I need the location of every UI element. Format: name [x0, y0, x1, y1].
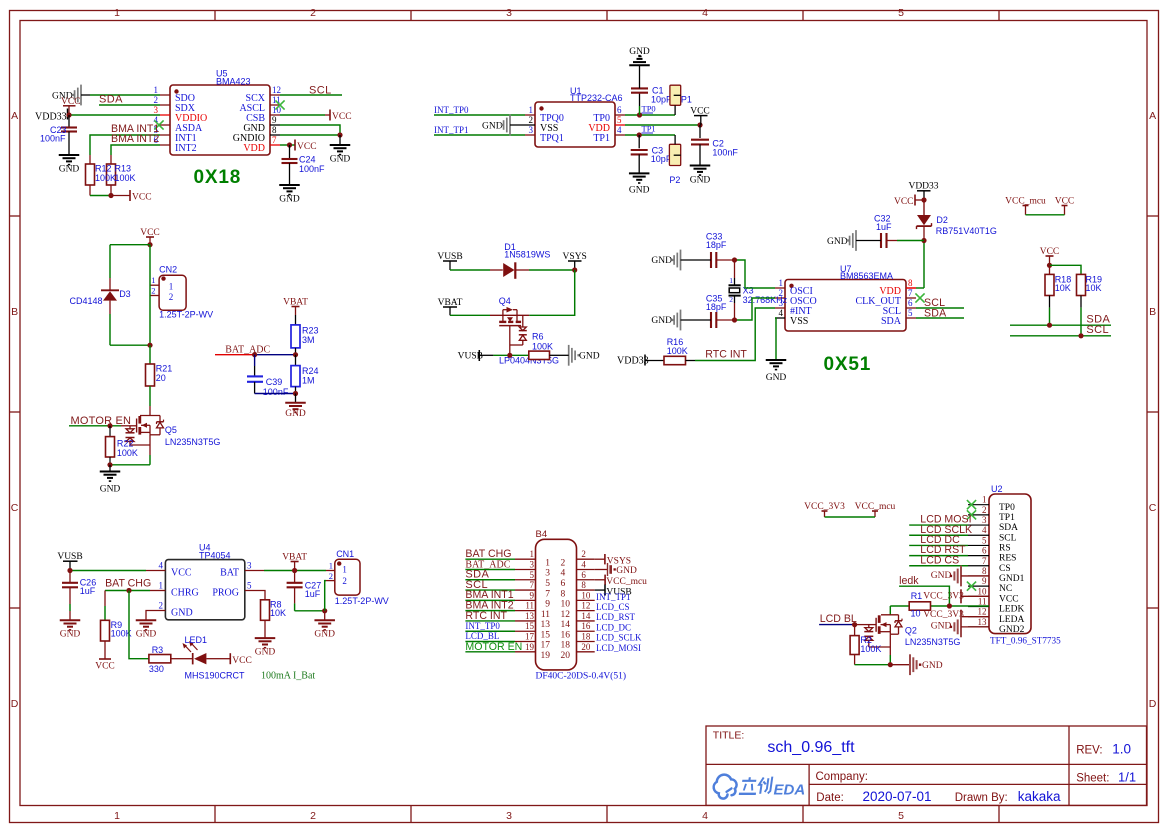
U1 left pins 1-3	[525, 105, 564, 144]
no-connect X on U5 pin11	[275, 100, 284, 109]
port VUSB top	[437, 252, 462, 270]
wire VCC_3V3 to VCC_mcu tie	[825, 516, 876, 518]
resistor R16 100K	[645, 337, 695, 365]
svg-text:EDA: EDA	[774, 782, 806, 799]
svg-text:INT2: INT2	[175, 143, 197, 154]
svg-text:1uF: 1uF	[876, 222, 892, 232]
svg-text:4: 4	[561, 569, 566, 579]
svg-text:VCC: VCC	[690, 106, 710, 116]
svg-text:9: 9	[545, 600, 550, 610]
wire BAT_ADC	[215, 354, 296, 356]
no-connect X on U2 pin2	[967, 510, 976, 519]
svg-text:4: 4	[617, 125, 622, 135]
svg-text:12: 12	[272, 85, 281, 95]
svg-text:D3: D3	[119, 289, 131, 299]
svg-text:INT_TP1: INT_TP1	[596, 592, 631, 602]
svg-text:TP0: TP0	[999, 503, 1015, 513]
svg-text:10pF: 10pF	[651, 154, 672, 164]
svg-text:VDD33: VDD33	[617, 356, 649, 367]
transistor Q4 LP0404N3T5G	[490, 296, 559, 365]
svg-text:10: 10	[561, 600, 571, 610]
svg-text:4: 4	[779, 308, 784, 318]
svg-text:GND: GND	[60, 630, 81, 640]
junction at VDD33/C23/VCC	[66, 112, 71, 117]
svg-text:TITLE:: TITLE:	[713, 730, 745, 742]
diode D1 1N5819WS	[450, 242, 550, 279]
wire VSYS down to Q4 drain	[529, 270, 575, 315]
svg-text:6: 6	[561, 579, 566, 589]
junction VUSB C26	[67, 568, 72, 573]
junction crystal top	[732, 257, 737, 262]
svg-text:GND: GND	[690, 175, 711, 185]
diode D2 RB751V40T1G	[917, 200, 997, 241]
svg-text:RB751V40T1G: RB751V40T1G	[936, 226, 997, 236]
svg-text:R23: R23	[302, 326, 319, 336]
svg-text:R22: R22	[117, 438, 134, 448]
svg-text:100K: 100K	[532, 341, 553, 351]
svg-text:CN1: CN1	[336, 549, 354, 559]
svg-text:13: 13	[525, 611, 535, 621]
wire D2 cathode down to U7 pin8	[906, 241, 924, 289]
power flag VCC at U5 pin7	[295, 140, 317, 153]
port VDD33 at R16	[617, 355, 649, 367]
op-amp U5 BMA423 body	[170, 69, 270, 156]
transistor Q5 LN235N3T5G	[137, 406, 221, 455]
svg-text:INT_TP0: INT_TP0	[465, 621, 500, 631]
svg-text:VCC: VCC	[95, 662, 115, 672]
wire VCC down through CN2 to R21	[149, 245, 151, 346]
svg-text:Sheet:: Sheet:	[1076, 773, 1109, 785]
svg-text:R12: R12	[95, 164, 112, 174]
port VBAT middle	[438, 298, 463, 315]
svg-text:5: 5	[247, 581, 252, 591]
wire U7 pin6 SCL	[916, 307, 964, 309]
ground flag left of C32	[827, 230, 881, 251]
svg-text:1.25T-2P-WV: 1.25T-2P-WV	[335, 596, 389, 606]
svg-text:GND: GND	[827, 237, 848, 247]
net label LCD RST at U2 pin6	[920, 544, 966, 556]
wire B4 pin7	[465, 589, 515, 591]
svg-text:B: B	[1149, 306, 1156, 318]
port VDD33 top right	[908, 182, 938, 200]
svg-text:2: 2	[581, 549, 586, 559]
svg-text:0X18: 0X18	[194, 167, 242, 188]
resistor R3 330	[149, 645, 181, 674]
net label LCD_SCLK at B4 pin18	[596, 633, 642, 643]
transistor Q2 LN235N3T5G	[876, 606, 960, 655]
svg-text:VUSB: VUSB	[57, 552, 82, 562]
wire MOTOR_EN to Q5 gate	[69, 425, 137, 427]
net label RTC INT at B4 pin13	[465, 610, 507, 622]
svg-text:MHS190CRCT: MHS190CRCT	[185, 670, 246, 680]
svg-text:5: 5	[545, 579, 550, 589]
svg-text:GND: GND	[279, 195, 300, 205]
svg-text:19: 19	[541, 651, 551, 661]
svg-text:Drawn By:: Drawn By:	[955, 792, 1008, 804]
svg-text:12: 12	[978, 607, 987, 617]
svg-text:19: 19	[525, 642, 535, 652]
svg-text:NC: NC	[999, 584, 1012, 594]
junction Q2 source ground	[888, 662, 893, 667]
svg-text:10: 10	[978, 586, 988, 596]
power flag VCC_3V3 at U2 pin10	[923, 589, 989, 603]
current note 100mA I_Bat	[261, 670, 315, 681]
no-connect X on U5 pin4	[154, 120, 163, 129]
junction ground node CN1	[322, 608, 327, 613]
ground flag at U2 pin13 GND2	[931, 616, 989, 637]
wire BMA_INT2 to U5 pin6 and down to R13	[111, 145, 160, 155]
svg-text:TPQ1: TPQ1	[540, 133, 564, 144]
resistor R19 10K	[1077, 274, 1103, 336]
svg-text:9: 9	[530, 590, 535, 600]
svg-text:1: 1	[342, 565, 347, 575]
power flag VCC left of D2	[894, 195, 924, 207]
wire B4 pin19	[465, 651, 515, 653]
svg-text:1: 1	[779, 278, 784, 288]
svg-text:REV:: REV:	[1076, 745, 1102, 757]
net label LCD BL	[820, 613, 857, 625]
svg-text:kakaka: kakaka	[1018, 789, 1061, 804]
wire B4 pin5	[465, 579, 515, 581]
svg-text:12: 12	[581, 601, 590, 611]
svg-text:18pF: 18pF	[706, 240, 727, 250]
net label BMA INT1	[111, 123, 159, 135]
ground flag at U2 pin8 GND1	[931, 566, 989, 587]
ground flag at B4 pin4	[595, 563, 637, 576]
svg-text:9: 9	[272, 115, 277, 125]
wire U5 pin10 to VCC	[280, 114, 330, 116]
svg-text:SCL: SCL	[1086, 324, 1109, 336]
svg-text:2: 2	[310, 7, 316, 19]
svg-text:VCC: VCC	[171, 568, 192, 579]
net label LCD SCLK at U2 pin4	[920, 524, 972, 536]
svg-text:Q2: Q2	[905, 626, 917, 636]
junction VBAT at C27	[292, 568, 297, 573]
net label SDA at U7 pin5	[924, 308, 947, 320]
wire U5 pin7 VDD to VCC	[280, 144, 295, 146]
svg-text:1.0: 1.0	[1112, 742, 1131, 757]
U7 address label 0X51	[824, 354, 872, 375]
U5 address label 0X18	[194, 167, 242, 188]
junction VCC node	[147, 242, 152, 247]
U7 left pins 1-4	[775, 278, 817, 327]
touch IC U1 TTP232-CA6 body	[535, 86, 623, 147]
svg-text:BAT: BAT	[220, 568, 239, 579]
svg-text:TFT_0.96_ST7735: TFT_0.96_ST7735	[990, 635, 1061, 645]
svg-text:LEDK: LEDK	[999, 605, 1024, 615]
svg-text:16: 16	[581, 621, 591, 631]
net label INT_TP1 at B4 pin10	[596, 592, 631, 602]
port VCC above C2	[690, 106, 710, 125]
U2 pins 1-13	[968, 495, 1025, 635]
net label TP0	[642, 104, 656, 114]
svg-text:P1: P1	[681, 95, 692, 105]
wire SCL rail	[1010, 335, 1111, 337]
svg-text:GND: GND	[100, 485, 121, 495]
power flag VCC above CN2	[140, 228, 160, 245]
svg-text:VCC: VCC	[999, 594, 1019, 604]
svg-text:B4: B4	[536, 529, 548, 540]
svg-text:1: 1	[114, 7, 120, 19]
svg-text:GND: GND	[922, 661, 943, 671]
svg-text:3: 3	[982, 515, 987, 525]
capacitor C27 1uF	[287, 571, 322, 611]
svg-text:7: 7	[545, 589, 550, 599]
connector CN1 1.25T-2P-WV	[326, 549, 389, 606]
svg-text:GND: GND	[629, 47, 650, 57]
port VUSB at U4	[57, 552, 82, 571]
svg-text:SDA: SDA	[99, 94, 123, 106]
ground flag at U1 pin2 VSS	[482, 115, 525, 136]
svg-text:BAT CHG: BAT CHG	[105, 578, 151, 590]
svg-text:VCC: VCC	[297, 142, 317, 152]
port VUSB at B4 pin8	[595, 585, 632, 598]
ground at U4 pin2 (red)	[136, 620, 157, 639]
svg-text:RES: RES	[999, 554, 1016, 564]
power flag VSYS at B4 pin2	[595, 554, 631, 567]
net label BAT_ADC at B4 pin3	[465, 559, 510, 570]
wire B4 pin11	[465, 610, 515, 612]
svg-text:C24: C24	[299, 155, 316, 165]
svg-text:TTP232-CA6: TTP232-CA6	[570, 93, 623, 103]
power flag VCC_mcu top right	[1005, 197, 1046, 215]
svg-text:GND: GND	[136, 630, 157, 640]
wire R16 to U7 pin3 #INT	[695, 308, 775, 361]
svg-text:2: 2	[159, 601, 164, 611]
resistor R1 10	[890, 591, 930, 618]
wire INT_TP0 to U1 pin1	[434, 114, 525, 116]
wire Q2 source to ground rail	[855, 655, 891, 665]
wire B4 pin1	[465, 558, 515, 560]
svg-text:VDD33: VDD33	[35, 111, 67, 122]
net label SDA	[99, 94, 123, 106]
svg-text:GND: GND	[651, 256, 672, 266]
svg-text:BM8563EMA: BM8563EMA	[840, 271, 893, 281]
svg-text:U2: U2	[991, 484, 1003, 494]
resistor R22 100K	[106, 426, 138, 465]
power flag VCC at R12/R13	[130, 190, 152, 203]
svg-text:100mA I_Bat: 100mA I_Bat	[261, 670, 315, 681]
junction ledk node	[947, 603, 952, 608]
ground below C3	[629, 173, 650, 195]
power flag VCC below R9	[95, 659, 115, 672]
net label MOTOR EN	[71, 415, 132, 427]
connector B4 DF40C-20DS-0.4V(51) body	[536, 529, 627, 682]
net label TP1	[642, 124, 656, 134]
ground below C24	[279, 185, 300, 205]
ground below C26 (red)	[60, 620, 81, 639]
junction LCD_BL at R2	[852, 622, 857, 627]
svg-text:Company:: Company:	[816, 771, 868, 783]
svg-text:18pF: 18pF	[706, 302, 727, 312]
U7 right pins 8-5	[855, 278, 916, 327]
svg-text:1: 1	[545, 558, 550, 568]
power flag VCC near U5 pin1	[61, 97, 81, 115]
resistor R12 100K	[86, 155, 95, 196]
svg-text:10pF: 10pF	[651, 95, 672, 105]
svg-text:R21: R21	[156, 364, 173, 374]
capacitor C23	[40, 115, 77, 155]
svg-text:10K: 10K	[1086, 283, 1102, 293]
svg-text:GND1: GND1	[999, 574, 1025, 584]
ground flag left of C35	[651, 310, 711, 331]
svg-text:15: 15	[525, 621, 535, 631]
junction TP1 node	[637, 132, 642, 137]
net label LCD CS at U2 pin7	[920, 554, 959, 566]
net label LCD MOSI at U2 pin3	[920, 514, 971, 526]
LCEDA logo text	[739, 777, 805, 799]
svg-text:BAT CHG: BAT CHG	[465, 548, 511, 560]
junction U5 pin8 node	[337, 132, 342, 137]
no-connect X on U2 pin1	[967, 500, 976, 509]
svg-text:5: 5	[898, 810, 904, 822]
junction at R13 bottom	[108, 193, 113, 198]
net label SCL at B4 pin7	[465, 579, 488, 591]
svg-text:100K: 100K	[117, 448, 138, 458]
svg-text:1: 1	[729, 276, 733, 285]
junction D3 bottom	[147, 343, 152, 348]
junction VDD33/D2/VCC	[921, 197, 926, 202]
Q2 gate ESD diodes	[864, 625, 890, 647]
svg-text:TP0: TP0	[642, 104, 656, 114]
svg-text:3M: 3M	[302, 335, 315, 345]
svg-text:VCC_3V3: VCC_3V3	[923, 610, 964, 620]
svg-text:LCD_MOSI: LCD_MOSI	[596, 643, 641, 653]
svg-text:TP1: TP1	[999, 513, 1015, 523]
svg-text:CD4148: CD4148	[70, 296, 103, 306]
net label INT_TP1	[434, 125, 469, 135]
svg-text:2: 2	[342, 576, 347, 586]
junction C39 top	[252, 352, 257, 357]
svg-text:20: 20	[581, 642, 591, 652]
svg-text:GND: GND	[314, 630, 335, 640]
resistor R18 10K	[1045, 265, 1071, 325]
junction R18 on SDA rail	[1047, 323, 1052, 328]
svg-text:20: 20	[561, 651, 571, 661]
net label BMA INT1 at B4 pin9	[465, 589, 513, 601]
capacitor C3 10pF	[631, 135, 672, 173]
connector CN2 1.25T-2P-WV	[150, 264, 213, 319]
svg-text:6: 6	[617, 105, 622, 115]
U4 left pins 4,1,2	[159, 561, 199, 619]
diode D3 CD4148	[70, 245, 131, 346]
svg-text:VCC_3V3: VCC_3V3	[923, 591, 964, 601]
no-connect X on U2 pin9	[967, 582, 976, 591]
svg-text:VDD: VDD	[243, 143, 265, 154]
test pad P1	[670, 85, 692, 115]
svg-text:BMA423: BMA423	[216, 76, 251, 86]
capacitor C32 1uF	[874, 214, 924, 249]
junction C32/D2 node	[921, 238, 926, 243]
Q5 gate ESD diodes	[126, 426, 151, 445]
wire B4 pin17	[465, 641, 515, 643]
resistor R23 3M	[291, 325, 319, 355]
svg-text:3: 3	[529, 125, 534, 135]
resistor R24 1M	[291, 355, 319, 394]
test pad P2	[669, 135, 680, 185]
ground below R24 (red)	[285, 394, 306, 419]
net label BAT_ADC	[225, 345, 270, 356]
wire C39 bottom to R24 bottom	[255, 393, 296, 395]
svg-text:1: 1	[530, 549, 535, 559]
svg-text:1uF: 1uF	[305, 589, 321, 599]
svg-text:5: 5	[898, 7, 904, 19]
svg-text:sch_0.96_tft: sch_0.96_tft	[767, 739, 855, 756]
net label LCD DC at U2 pin5	[920, 534, 960, 546]
wire U4 GND pin2 to ground	[146, 611, 165, 621]
ground at U5 pin8/9	[330, 135, 351, 165]
svg-text:GND: GND	[59, 165, 80, 175]
wire VCC_mcu to VCC tie	[1026, 214, 1065, 216]
net label LCD_MOSI at B4 pin20	[596, 643, 641, 653]
svg-text:R6: R6	[532, 331, 544, 341]
svg-text:3: 3	[154, 105, 159, 115]
charger U4 TP4054 body	[165, 542, 244, 619]
svg-text:VSS: VSS	[790, 316, 808, 327]
power flag VCC_3V3 at U2 pin12	[923, 610, 989, 624]
wire U2 pin6	[909, 555, 968, 557]
crystal X3 32.768KHz	[729, 260, 788, 320]
svg-text:1uF: 1uF	[80, 586, 96, 596]
wire B4 pin15	[465, 630, 515, 632]
U4 right pins 3,5	[212, 561, 252, 599]
wire U7 pin4 VSS to ground	[775, 318, 776, 360]
junction Q4 gate on VUSB wire	[507, 353, 512, 358]
svg-text:R13: R13	[115, 164, 132, 174]
power flag VCC above R18	[1040, 247, 1060, 265]
wire VDD33 to U5 pin3	[68, 114, 161, 116]
wire U4 BAT pin3 to CN1	[245, 570, 326, 572]
net label SCL at U7 pin6	[924, 297, 945, 309]
svg-text:8: 8	[908, 278, 913, 288]
svg-text:VCC: VCC	[332, 112, 352, 122]
capacitor C39 100nF	[247, 355, 289, 398]
svg-text:C39: C39	[266, 377, 283, 387]
svg-text:D: D	[11, 698, 19, 710]
LCEDA logo cloud	[714, 775, 737, 799]
wire SDA to U5 pin2	[99, 104, 160, 106]
svg-text:LCD CS: LCD CS	[920, 554, 959, 566]
svg-text:GND: GND	[766, 373, 787, 383]
svg-text:R3: R3	[152, 645, 164, 655]
svg-text:100K: 100K	[115, 173, 136, 183]
capacitor C35 18pF	[706, 294, 735, 328]
wire BMA_INT1 to U5 pin5 and down to R12	[90, 135, 160, 155]
svg-text:LCD BL: LCD BL	[820, 613, 857, 625]
net label SDA at B4 pin5	[465, 569, 489, 581]
wire INT_TP1 to U1 pin3	[434, 134, 525, 136]
svg-text:1/1: 1/1	[1118, 770, 1136, 785]
svg-text:VSYS: VSYS	[607, 557, 631, 567]
svg-text:11: 11	[978, 597, 987, 607]
svg-text:GND: GND	[651, 316, 672, 326]
svg-text:1: 1	[159, 581, 164, 591]
svg-text:LN235N3T5G: LN235N3T5G	[905, 637, 961, 647]
wire D1 cathode to VSYS	[529, 269, 575, 271]
net label LCD_RST at B4 pin14	[596, 612, 636, 622]
resistor R13 100K	[107, 155, 116, 196]
svg-text:1M: 1M	[302, 375, 315, 385]
svg-text:GND: GND	[579, 351, 600, 361]
svg-text:18: 18	[561, 641, 571, 651]
svg-text:SDA: SDA	[881, 316, 902, 327]
svg-text:100nF: 100nF	[263, 387, 289, 397]
svg-text:LN235N3T5G: LN235N3T5G	[165, 437, 221, 447]
svg-text:1N5819WS: 1N5819WS	[504, 249, 550, 259]
U5 left pins 1-6	[154, 85, 208, 154]
svg-text:GND: GND	[482, 121, 503, 131]
junction VCC node at C2	[697, 122, 702, 127]
